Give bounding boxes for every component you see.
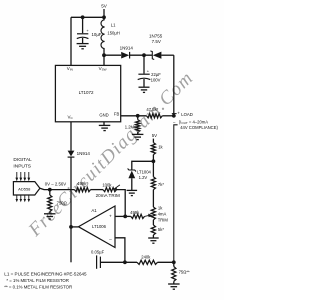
- svg-text:VSW: VSW: [99, 66, 107, 72]
- DAC bottom pin 1: [16, 195, 18, 199]
- resistor 75ohm**: [173, 262, 175, 266]
- svg-text:** = 0.1% METAL FILM RESISTOR: ** = 0.1% METAL FILM RESISTOR: [4, 285, 72, 290]
- diode 1N914 (top): [121, 52, 129, 59]
- ground (75 sense): [168, 283, 180, 285]
- node sense junction: [172, 260, 176, 264]
- wire to op-amp output: [70, 157, 72, 262]
- DAC bottom pin 4: [28, 195, 30, 199]
- resistor 1k: [151, 143, 155, 155]
- svg-text:FB: FB: [114, 112, 120, 117]
- svg-text:1k: 1k: [158, 206, 163, 211]
- digital input arrow 3: [24, 172, 26, 178]
- ground (1.2M): [132, 133, 144, 135]
- inductor L1 150uH: [101, 20, 105, 49]
- svg-text:44V COMPLIANCE): 44V COMPLIANCE): [180, 125, 218, 130]
- svg-text:LOAD: LOAD: [181, 112, 193, 117]
- resistor 499k (to 4mA trim wiper): [131, 214, 145, 218]
- ground (LT1072 GND pin): [103, 122, 105, 125]
- svg-text:VIN: VIN: [67, 66, 73, 72]
- svg-text:TRIM: TRIM: [158, 217, 169, 222]
- node LT1004 junction: [152, 159, 156, 163]
- op-amp regulator U1 LT1072: [55, 65, 120, 121]
- svg-text:DIGITAL: DIGITAL: [13, 157, 32, 163]
- potentiometer 1k 4mA TRIM: [151, 207, 155, 220]
- svg-text:150µH: 150µH: [107, 30, 119, 35]
- svg-text:GND: GND: [99, 113, 108, 118]
- svg-text:20mA TRIM: 20mA TRIM: [96, 193, 120, 198]
- svg-text:100k: 100k: [102, 183, 112, 188]
- svg-text:+: +: [109, 215, 112, 220]
- zener LT1004 1.2V: [128, 169, 136, 172]
- svg-text:LT1006: LT1006: [92, 224, 107, 229]
- capacitor 22uF 100V: [143, 55, 145, 73]
- svg-text:75Ω**: 75Ω**: [179, 270, 190, 275]
- svg-text:AD558: AD558: [18, 186, 31, 191]
- node op-amp output junction: [69, 225, 73, 229]
- potentiometer 100k 20mA TRIM: [103, 188, 117, 192]
- node -input/240k junction: [123, 260, 127, 264]
- DAC bottom pin 2: [20, 195, 22, 199]
- resistor 499k*: [75, 188, 91, 192]
- svg-text:750Ω: 750Ω: [57, 200, 67, 205]
- wire -input: [115, 238, 125, 262]
- DAC bottom pin 3: [24, 195, 26, 199]
- svg-text:VC: VC: [68, 114, 74, 120]
- wire top rail: [71, 16, 104, 18]
- svg-text:1.2V: 1.2V: [139, 175, 148, 180]
- svg-text:499k*: 499k*: [77, 181, 88, 186]
- ground (22uF): [139, 86, 150, 88]
- diode 1N914 (Vc clamp): [68, 151, 75, 157]
- node load+ / 42.5k junction: [172, 114, 176, 118]
- svg-text:240k: 240k: [141, 255, 151, 260]
- svg-text:–: –: [173, 119, 176, 124]
- node 5V/C1 junction: [81, 15, 85, 19]
- wire output to Vc line: [71, 226, 78, 228]
- capacitor 10uF: [82, 17, 84, 33]
- resistor 42.5k*: [147, 114, 163, 118]
- svg-text:L1: L1: [111, 23, 116, 28]
- svg-text:(IOUT = 4–20mA: (IOUT = 4–20mA: [179, 119, 208, 125]
- svg-text:5V: 5V: [152, 133, 157, 138]
- svg-text:4mA: 4mA: [158, 212, 167, 217]
- svg-text:A1: A1: [91, 208, 97, 213]
- svg-text:L1 = PULSE ENGINEERING #PE-526: L1 = PULSE ENGINEERING #PE-52645: [4, 272, 87, 277]
- digital input arrow 1: [16, 172, 18, 178]
- node 5V/L1 junction: [102, 15, 106, 19]
- svg-text:0V – 2.56V: 0V – 2.56V: [45, 182, 67, 187]
- wire Vc down: [70, 122, 72, 151]
- svg-text:7k*: 7k*: [158, 182, 164, 187]
- node FB/1.2M junction: [136, 114, 140, 118]
- node +input junction: [123, 215, 127, 219]
- wire VSW to D1: [104, 54, 121, 56]
- wiper arrow into 1k pot: [145, 215, 149, 216]
- resistor 7k*: [151, 177, 155, 190]
- svg-text:–: –: [109, 238, 112, 243]
- svg-text:INPUTS: INPUTS: [13, 163, 31, 169]
- wire bottom line: [100, 261, 137, 263]
- svg-text:5V: 5V: [101, 4, 108, 9]
- wire load- rail down: [174, 125, 178, 262]
- svg-text:22µF: 22µF: [151, 72, 161, 77]
- node VSW junction: [102, 53, 106, 57]
- svg-text:+: +: [177, 110, 180, 115]
- wire D1 to node A: [130, 54, 152, 56]
- resistor 750ohm: [49, 190, 51, 195]
- wire output rail down: [173, 55, 175, 116]
- op-amp A1 LT1006: [78, 206, 115, 248]
- DAC U2 AD558: [13, 182, 40, 195]
- node DAC output / 750 junction: [48, 188, 52, 192]
- svg-text:1k: 1k: [158, 144, 163, 149]
- svg-text:LT1004: LT1004: [137, 169, 152, 174]
- ground (5k): [148, 237, 159, 239]
- svg-text:5k*: 5k*: [158, 227, 164, 232]
- ground (LT1004): [127, 189, 138, 191]
- svg-text:1.2M*: 1.2M*: [125, 125, 136, 130]
- wire Vin drop: [70, 17, 72, 65]
- svg-text:* = 1% METAL FILM RESISTOR: * = 1% METAL FILM RESISTOR: [6, 278, 69, 283]
- svg-text:47.5k*: 47.5k*: [146, 107, 158, 112]
- ground (C1): [77, 43, 89, 45]
- digital input arrow 2: [20, 172, 22, 178]
- svg-text:499k: 499k: [130, 210, 140, 215]
- wire to LT1004: [132, 161, 154, 170]
- svg-text:10µF: 10µF: [92, 32, 102, 37]
- wire: [91, 189, 104, 191]
- svg-text:+: +: [86, 28, 89, 33]
- svg-text:LT1072: LT1072: [79, 90, 94, 95]
- svg-text:0.05µF: 0.05µF: [91, 249, 105, 254]
- svg-text:100V: 100V: [151, 78, 161, 83]
- digital input arrow 4: [28, 172, 30, 178]
- resistor 1.2M*: [137, 116, 139, 120]
- capacitor 0.05uF: [96, 255, 98, 268]
- resistor 5k*: [151, 225, 155, 235]
- zener diode 1N755 7.5V: [150, 51, 154, 60]
- wire FB: [121, 115, 147, 117]
- svg-text:1N755: 1N755: [149, 33, 163, 38]
- wire +input: [115, 215, 125, 217]
- svg-text:+: +: [147, 69, 150, 74]
- node A (boost output): [142, 53, 146, 57]
- svg-text:7.5V: 7.5V: [152, 39, 161, 44]
- svg-text:1N914: 1N914: [120, 46, 134, 51]
- svg-text:1N914: 1N914: [77, 151, 91, 156]
- resistor 240k: [137, 260, 158, 264]
- ground (750): [44, 213, 56, 215]
- wire DAC output: [40, 188, 75, 189]
